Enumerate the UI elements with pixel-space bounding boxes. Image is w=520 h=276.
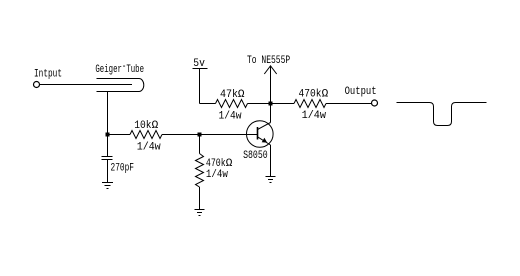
svg-text:1/4w: 1/4w	[137, 141, 161, 153]
wire 5v to R3	[200, 103, 216, 105]
output pulse waveform	[397, 103, 487, 126]
input terminal J1	[34, 82, 40, 88]
svg-text:Geiger-Tube: Geiger-Tube	[95, 61, 144, 76]
wire node C to collector Q1	[270, 104, 272, 123]
power rail 5v	[193, 69, 208, 104]
wire node B to base Q1	[200, 134, 258, 136]
wire R1 to node B	[162, 134, 200, 136]
svg-text:5v: 5v	[193, 58, 205, 70]
resistor R3 47k	[216, 100, 248, 108]
wire node C to R4	[271, 103, 295, 105]
wire input to tube anode	[40, 84, 132, 86]
node C junction	[269, 102, 273, 106]
transistor Q1 S8050	[246, 121, 273, 148]
svg-text:270pF: 270pF	[111, 162, 135, 174]
wire R2 to ground	[199, 187, 201, 210]
svg-text:1/4w: 1/4w	[206, 169, 228, 181]
svg-text:470k: 470k	[206, 158, 226, 170]
svg-text:Ω: Ω	[226, 158, 233, 170]
resistor R1 10k	[130, 131, 162, 139]
output terminal J2	[372, 100, 378, 106]
wire node A to capacitor	[107, 135, 109, 157]
capacitor C1 270pF	[102, 157, 113, 160]
svg-text:Output: Output	[345, 86, 377, 98]
wire R3 to node C	[248, 103, 271, 105]
svg-text:Intput: Intput	[34, 68, 62, 80]
resistor R4 470k	[294, 100, 326, 108]
svg-text:To NE555P: To NE555P	[247, 55, 290, 67]
ground GND2	[195, 210, 205, 216]
wire node A to R 10k	[108, 134, 131, 136]
arrow to NE555P	[264, 66, 276, 104]
resistor R2 470k vertical	[196, 154, 204, 188]
svg-text:47k: 47k	[220, 89, 238, 101]
svg-text:Ω: Ω	[152, 120, 159, 132]
node A junction	[106, 133, 110, 137]
ground GND3	[266, 177, 276, 183]
wire emitter Q1 to ground	[270, 145, 272, 177]
svg-text:10k: 10k	[134, 120, 152, 132]
wire node B to R 470k vertical	[199, 135, 201, 154]
svg-text:1/4w: 1/4w	[302, 110, 327, 122]
wire R4 to output	[326, 103, 371, 105]
svg-text:Ω: Ω	[322, 88, 329, 100]
svg-text:Ω: Ω	[238, 89, 245, 101]
svg-text:470k: 470k	[299, 88, 322, 100]
node B junction	[198, 133, 202, 137]
wire capacitor to ground	[107, 160, 109, 183]
Geiger tube GT1	[97, 79, 144, 92]
ground GND1	[102, 183, 113, 189]
svg-text:S8050: S8050	[243, 150, 268, 162]
wire tube cathode down	[107, 92, 109, 135]
svg-text:1/4w: 1/4w	[219, 111, 242, 123]
